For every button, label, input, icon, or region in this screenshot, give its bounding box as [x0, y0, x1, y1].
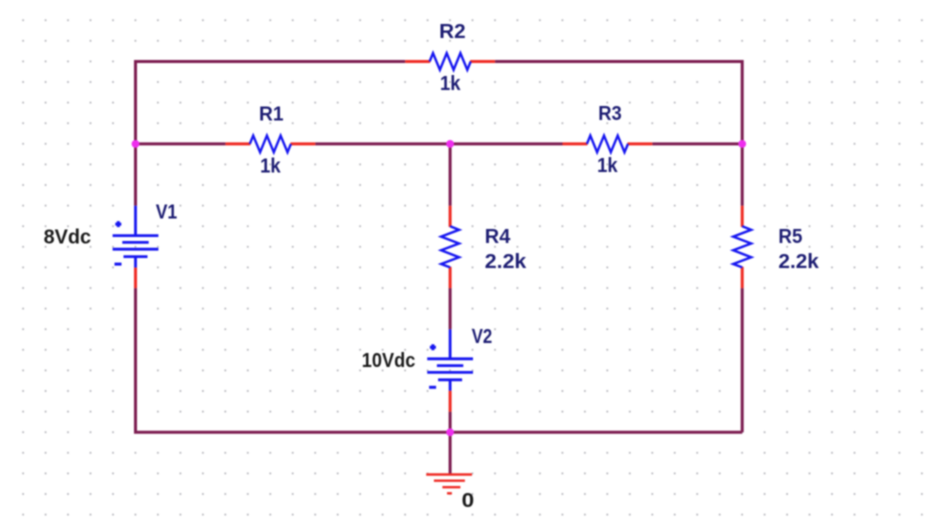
bottom junction	[446, 428, 454, 436]
wire left: V1 to bottom rail	[136, 288, 451, 432]
svg-text:R4: R4	[485, 226, 511, 248]
svg-text:2.2k: 2.2k	[485, 251, 527, 273]
resistor R3 body	[587, 136, 628, 153]
ground symbol 0	[426, 475, 472, 494]
svg-text:R2: R2	[439, 21, 466, 43]
wire right: R5 to bottom rail	[741, 288, 744, 432]
resistor R1 pins	[226, 142, 316, 145]
dc source V1 bottom pin	[134, 268, 137, 289]
svg-text:R3: R3	[598, 103, 622, 125]
svg-text:1k: 1k	[260, 156, 281, 178]
node A junction	[132, 140, 140, 148]
svg-text:8Vdc: 8Vdc	[44, 227, 92, 249]
resistor R4 body	[441, 226, 459, 267]
dc source V2 body	[427, 329, 473, 391]
wire right: node C to R5	[741, 144, 744, 206]
resistor R3 pins	[563, 142, 653, 145]
resistor R5 body	[733, 226, 751, 267]
resistor R2 pins	[405, 60, 495, 63]
wire top rail left + left riser	[136, 62, 406, 144]
svg-text:2.2k: 2.2k	[778, 251, 819, 273]
resistor R2 body	[430, 53, 471, 70]
node B junction	[446, 140, 454, 148]
wire mid rail: node A to R1	[136, 142, 226, 145]
node C junction	[738, 140, 746, 148]
wire top rail right + right riser	[495, 62, 742, 144]
wire bottom rail right half	[450, 431, 742, 434]
resistor R4 pins	[449, 206, 452, 288]
dc source V2 bottom pin	[449, 391, 452, 412]
wire left: node A to V1	[134, 144, 137, 206]
wire mid: R4 to V2	[449, 288, 452, 329]
wire mid: node B to R4	[449, 144, 452, 206]
wire mid: V2 to bottom rail	[449, 412, 452, 433]
svg-text:0: 0	[462, 490, 475, 512]
svg-text:R1: R1	[259, 104, 284, 126]
svg-text:10Vdc: 10Vdc	[362, 350, 416, 372]
svg-text:1k: 1k	[440, 73, 461, 95]
dc source V1 body	[113, 206, 159, 268]
svg-text:V1: V1	[156, 202, 178, 224]
resistor R5 pins	[741, 206, 744, 288]
wire mid rail: R1 to R3	[315, 142, 562, 145]
wire mid rail: R3 to node C	[652, 142, 742, 145]
svg-text:R5: R5	[778, 226, 802, 248]
wire ground stub	[449, 432, 452, 473]
resistor R1 body	[250, 136, 291, 153]
svg-text:V2: V2	[472, 326, 493, 348]
svg-text:1k: 1k	[597, 155, 618, 177]
